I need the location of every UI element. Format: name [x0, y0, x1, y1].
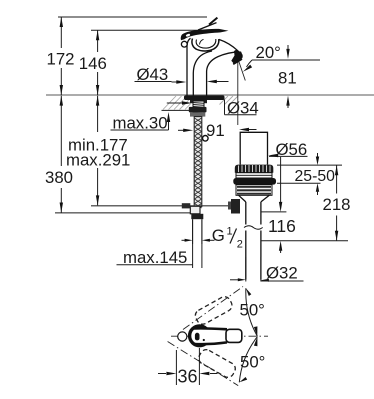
svg-text:25-50: 25-50 — [295, 168, 336, 185]
svg-text:max.291: max.291 — [66, 151, 130, 170]
svg-text:50°: 50° — [240, 353, 265, 372]
svg-text:218: 218 — [323, 195, 351, 214]
svg-text:max.145: max.145 — [123, 248, 187, 267]
svg-text:81: 81 — [278, 69, 297, 88]
svg-text:Ø32: Ø32 — [266, 264, 298, 283]
svg-text:91: 91 — [206, 121, 225, 140]
svg-text:1: 1 — [227, 226, 233, 238]
svg-text:116: 116 — [268, 216, 296, 236]
svg-text:172: 172 — [47, 50, 75, 69]
svg-text:50°: 50° — [240, 301, 265, 320]
svg-text:2: 2 — [237, 239, 243, 251]
svg-text:20°: 20° — [256, 43, 281, 62]
svg-text:380: 380 — [45, 168, 73, 187]
svg-text:36: 36 — [178, 366, 198, 386]
svg-text:G: G — [212, 226, 225, 245]
svg-text:146: 146 — [79, 54, 107, 73]
